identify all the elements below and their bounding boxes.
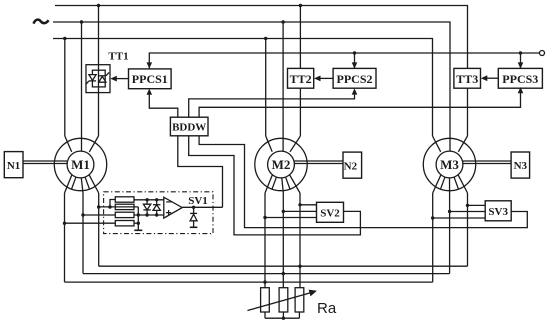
motor M1 rotor circle — [67, 151, 94, 178]
wire: SV3 input 3 — [433, 217, 486, 219]
junction M1 lead c / SV1 input 1 — [97, 205, 100, 208]
load N2 box — [343, 152, 362, 178]
junction ground vertical / plus wire — [137, 213, 140, 216]
motor M2 rotor circle — [268, 151, 295, 178]
arrowhead into PPCS1 bottom — [147, 89, 153, 95]
wire: SV2 input 2 — [283, 210, 316, 212]
wire: M3 rotor lead a — [432, 193, 434, 282]
AC source symbol ~ — [34, 20, 49, 24]
junction D1 bottom — [145, 213, 148, 216]
svg-text:PPCS2: PPCS2 — [337, 72, 373, 86]
svg-text:SV1: SV1 — [188, 195, 208, 207]
wire: SV2 output to BDDW — [189, 136, 361, 235]
arrowhead into PPCS3 top — [518, 62, 524, 68]
wire: PPCS1 gate drive to TT1 — [117, 78, 129, 80]
svg-text:M2: M2 — [272, 157, 291, 172]
junction Ra common tie — [282, 317, 285, 320]
junction on setpoint line at PPCS2 — [353, 51, 356, 54]
junction zener tap on SV1 output — [192, 206, 195, 209]
junction on bus L3 at M1 drop — [63, 37, 66, 40]
wire: M2 stator lead-in middle — [282, 138, 284, 151]
wire: rotor ring bus 1 — [99, 265, 468, 267]
open terminal circle — [540, 51, 545, 56]
resistor R2 — [115, 204, 134, 209]
arrowhead into TT2 — [314, 76, 321, 82]
motor M3 rotor circle — [436, 151, 463, 178]
controller PPCS1 box — [129, 69, 172, 89]
ground — [134, 229, 142, 231]
speed sensor SV1 dash-dot enclosure — [104, 192, 213, 234]
wire: rotor ring bus 2 — [83, 273, 450, 275]
wire: M3 rotor brush fan — [433, 175, 468, 193]
svg-text:BDDW: BDDW — [172, 122, 206, 134]
wire: rotor ring bus 3 — [65, 281, 433, 283]
junction on bus L2 at M1 drop — [80, 20, 83, 23]
load N1 box — [4, 152, 23, 178]
svg-text:M3: M3 — [440, 157, 459, 172]
resistor Ra phase 1 — [261, 288, 270, 312]
ground bar under VD1 — [190, 226, 198, 228]
wire: M1 phase drop from L2 — [81, 22, 83, 138]
resistor R4 — [115, 221, 134, 226]
coordinating unit BDDW box — [170, 117, 208, 136]
wire: common vertical to ground — [137, 207, 139, 230]
wire: M1 phase drop from L3 — [64, 39, 66, 137]
arrowhead into PPCS2 bottom — [352, 88, 358, 94]
clamp diode D2 (up) — [153, 200, 160, 215]
junction M2 lead a / ring bus 3 — [263, 280, 266, 283]
junction M2 lead b / SV2 input 2 — [282, 210, 285, 213]
wire: PPCS3 gate drive to TT3 — [487, 77, 498, 79]
junction D1 top — [145, 198, 148, 201]
wire: M1 rotor lead b — [82, 193, 84, 274]
wire: SV2 input 1 — [300, 204, 317, 206]
resistor R3 — [115, 212, 134, 217]
wire: M2 rotor lead a — [264, 193, 266, 288]
junction on bus L1 at M2 drop — [299, 4, 302, 7]
resistor Ra phase 3 — [295, 288, 304, 312]
junction D2 bottom — [155, 213, 158, 216]
wire: supply bus L2 — [53, 22, 450, 138]
wire: SV1 output to BDDW — [178, 136, 223, 208]
op-amp U1 — [164, 197, 182, 218]
wire: setpoint line to PPCS inputs — [149, 53, 539, 68]
svg-text:TT2: TT2 — [290, 72, 312, 86]
shaft M2 to N2 — [294, 161, 343, 164]
thyristor module TT3 box — [454, 68, 481, 88]
junction M2 lead a / SV2 input 3 — [263, 216, 266, 219]
wire: M1 rotor lead a — [64, 193, 66, 282]
svg-text:SV2: SV2 — [320, 208, 340, 220]
wire: M2 rotor lead b — [282, 193, 284, 288]
wire: SV3 input 2 — [450, 211, 486, 213]
resistor R1 — [115, 197, 134, 202]
wire: M3 stator lead-in left — [433, 136, 441, 152]
wire: M2 stator lead-in left — [266, 136, 273, 152]
motor M3 stator circle — [423, 138, 475, 190]
load N3 box — [511, 152, 529, 178]
junction on bus L3 at M2 drop — [264, 37, 267, 40]
wire: supply bus L1 — [55, 6, 468, 137]
wire: R1 left branch — [110, 200, 115, 208]
wire: M2 rotor lead c — [299, 193, 301, 288]
wire: PPCS2 gate drive to TT2 — [320, 77, 333, 79]
motor M2 stator circle — [255, 138, 307, 190]
Ra adjustment arrowhead — [309, 290, 317, 297]
arrowhead into TT1 — [110, 76, 117, 82]
wire: BDDW output to PPCS3 bottom — [199, 93, 520, 117]
thyristor TT1b (cathode up) — [99, 72, 109, 82]
junction R1 branch / SV1 input 1 — [108, 205, 111, 208]
wire: setpoint drop to PPCS2 top — [354, 53, 356, 68]
resistor Ra phase 2 — [279, 288, 288, 312]
wire: M1 phase drop from L1 through TT1 — [98, 6, 100, 137]
junction M1 lead a / SV1 input 3 — [63, 222, 66, 225]
arrowhead into PPCS2 top — [352, 62, 358, 68]
wire: R3 to op-amp non-inverting input — [134, 214, 164, 216]
junction on setpoint line at PPCS3 — [519, 51, 522, 54]
arrowhead into PPCS3 bottom — [518, 87, 524, 93]
wire: SV1 input 3 from M1 rotor lead a — [65, 222, 116, 224]
wire: M2 phase drop from L3 — [265, 39, 267, 137]
Ra adjustment arrow — [248, 293, 312, 311]
junction M3 lead c / SV3 input 1 — [466, 204, 469, 207]
wire: R4 right stub — [134, 222, 138, 224]
wire: M1 stator lead-in left — [65, 136, 72, 152]
wire: SV3 output to BDDW — [199, 136, 527, 228]
wire: SV1 input 1 from M1 rotor lead c — [99, 206, 139, 208]
svg-text:Ra: Ra — [317, 300, 337, 317]
junction M3 lead a / SV3 input 3 — [431, 216, 434, 219]
junction M2 lead c / ring bus 1 — [298, 265, 301, 268]
thyristor TT1a (cathode down) — [86, 75, 96, 85]
svg-text:PPCS3: PPCS3 — [502, 72, 538, 86]
svg-text:N2: N2 — [344, 161, 358, 173]
junction M2 lead b / ring bus 2 — [282, 272, 285, 275]
controller PPCS3 box — [498, 68, 542, 88]
svg-text:PPCS1: PPCS1 — [132, 72, 168, 86]
wire: M2 phase drop from L2 — [282, 22, 284, 138]
wire: M3 rotor lead c — [467, 193, 469, 266]
junction on bus L2 at M2 drop — [281, 20, 284, 23]
arrowhead into TT3 — [481, 75, 488, 81]
junction D2 top — [155, 198, 158, 201]
arrowhead into PPCS1 top — [147, 62, 153, 68]
wire: R1 to op-amp inverting input — [134, 199, 164, 201]
wire: BDDW output to PPCS1 bottom — [149, 95, 178, 118]
op-amp minus sign — [166, 201, 171, 203]
wire: SV1 input 2 from M1 rotor lead b — [83, 214, 115, 216]
zener diode VD1 — [190, 207, 197, 227]
wire: M1 stator lead-in right — [89, 136, 98, 152]
shaft M1 to N1 — [23, 161, 67, 164]
junction R4 / ground vertical — [137, 222, 140, 225]
clamp diode D1 (down) — [143, 200, 150, 215]
motor M1 stator circle — [54, 138, 106, 190]
speed sensor SV3 box — [485, 201, 511, 221]
wire: M2 phase drop from L1 through TT2 — [299, 6, 301, 137]
wire: supply bus L3 — [53, 39, 433, 137]
thyristor module TT2 box — [288, 68, 314, 88]
junction M1 lead b / SV1 input 2 — [81, 213, 84, 216]
speed sensor SV2 box — [317, 202, 344, 222]
wire: setpoint drop to PPCS3 top — [520, 53, 522, 68]
wire: M2 rotor brush fan — [265, 175, 300, 193]
svg-text:TT3: TT3 — [456, 72, 478, 86]
TT1 inner branch loop — [92, 70, 105, 87]
wire: M1 rotor brush fan — [65, 175, 99, 193]
op-amp plus sign — [166, 210, 171, 215]
thyristor module TT1 outer box — [86, 65, 110, 93]
wire: M2 stator lead-in right — [290, 136, 300, 152]
wire: SV3 input 1 — [468, 204, 486, 206]
wire: Ra common bottom tie — [265, 312, 299, 318]
junction on bus L1 at M1 drop — [97, 4, 100, 7]
svg-text:N3: N3 — [514, 160, 528, 172]
svg-text:TT1: TT1 — [108, 51, 128, 63]
wire: M3 stator lead-in middle — [449, 138, 451, 151]
svg-text:M1: M1 — [71, 157, 90, 172]
junction M3 lead b / SV3 input 2 — [448, 210, 451, 213]
svg-text:N1: N1 — [7, 160, 20, 172]
wire: BDDW output to PPCS2 bottom — [189, 95, 355, 118]
wire: SV1 op-amp output — [182, 206, 222, 208]
wire: M3 rotor lead b — [449, 193, 451, 274]
controller PPCS2 box — [333, 68, 376, 88]
wire: SV2 input 3 — [265, 217, 317, 219]
junction M2 lead c / SV2 input 1 — [298, 203, 301, 206]
shaft M3 to N3 — [463, 161, 511, 164]
svg-text:SV3: SV3 — [488, 206, 508, 218]
wire: M1 stator lead-in middle — [81, 138, 83, 151]
wire: TT1 through line — [98, 65, 100, 93]
wire: M1 rotor lead c — [98, 193, 100, 266]
wire: M3 stator lead-in right — [458, 136, 467, 152]
